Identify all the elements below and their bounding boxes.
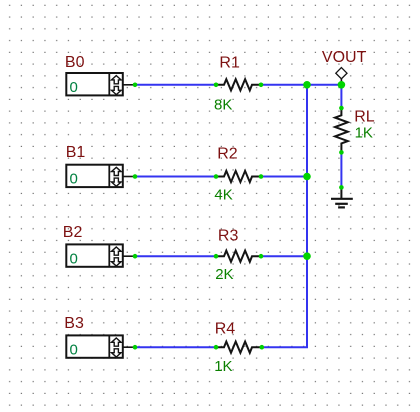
svg-text:B2: B2: [63, 224, 83, 241]
wire R1 to bus node A: [261, 84, 307, 86]
wire B0 output to R1: [135, 84, 216, 86]
svg-text:8K: 8K: [214, 96, 232, 113]
pin dot R1 right: [259, 83, 264, 88]
pin dot R4 right: [260, 345, 265, 350]
ground: [331, 187, 353, 207]
digital source B2: [66, 244, 135, 266]
wire vertical bus: [306, 85, 308, 347]
svg-text:R4: R4: [215, 320, 236, 337]
pin dot B1 output: [133, 174, 138, 179]
resistor R3: [216, 251, 261, 262]
svg-text:VOUT: VOUT: [322, 49, 367, 66]
svg-text:1K: 1K: [355, 125, 373, 142]
pin dot R2 right: [259, 174, 264, 179]
pin dot RL bottom: [339, 150, 344, 155]
pin dot RL top: [339, 106, 344, 111]
svg-text:0: 0: [70, 79, 78, 96]
svg-text:R1: R1: [219, 54, 240, 71]
svg-text:RL: RL: [354, 109, 375, 126]
digital source B3: [66, 335, 135, 357]
wire B3 output to R4: [135, 346, 216, 348]
terminal diamond VOUT: [336, 68, 347, 85]
junction node A: [303, 81, 311, 89]
junction node VOUT: [338, 81, 346, 89]
pin dot B3 output: [133, 345, 138, 350]
resistor RL vertical: [335, 108, 348, 152]
pin dot ground: [339, 185, 344, 190]
svg-text:4K: 4K: [214, 186, 232, 203]
resistor R2: [216, 171, 261, 182]
svg-text:R2: R2: [217, 146, 238, 163]
wire VOUT node down to RL: [340, 85, 342, 108]
wire bus node A to VOUT node: [307, 84, 342, 86]
wire R2 to bus node B: [261, 176, 307, 178]
pin dot B2 output: [133, 254, 138, 259]
svg-text:B1: B1: [66, 144, 86, 161]
digital source B1: [66, 165, 135, 187]
digital source B0: [66, 73, 135, 95]
svg-text:0: 0: [70, 171, 78, 188]
svg-text:0: 0: [70, 341, 78, 358]
pin dot B0 output: [133, 83, 138, 88]
resistor R1: [216, 79, 261, 90]
svg-text:B3: B3: [64, 315, 84, 332]
wire corner at VOUT column: [340, 84, 342, 86]
pin dot R2 left: [214, 174, 219, 179]
wire B1 output to R2: [135, 176, 216, 178]
svg-text:R3: R3: [218, 227, 239, 244]
wire B2 output to R3: [135, 255, 216, 257]
pin dot R3 left: [214, 254, 219, 259]
svg-text:2K: 2K: [215, 266, 233, 283]
pin dot R1 left: [214, 83, 219, 88]
svg-text:1K: 1K: [214, 358, 232, 375]
svg-text:B0: B0: [65, 54, 85, 71]
svg-text:0: 0: [70, 250, 78, 267]
wire RL to ground: [340, 152, 342, 187]
resistor R4: [216, 342, 262, 353]
junction node B: [303, 173, 311, 181]
wire R3 to bus node C: [261, 255, 307, 257]
pin dot R4 left: [214, 345, 219, 350]
pin dot R3 right: [259, 254, 264, 259]
junction node C: [303, 252, 311, 260]
wire R4 to bus corner: [262, 346, 308, 348]
